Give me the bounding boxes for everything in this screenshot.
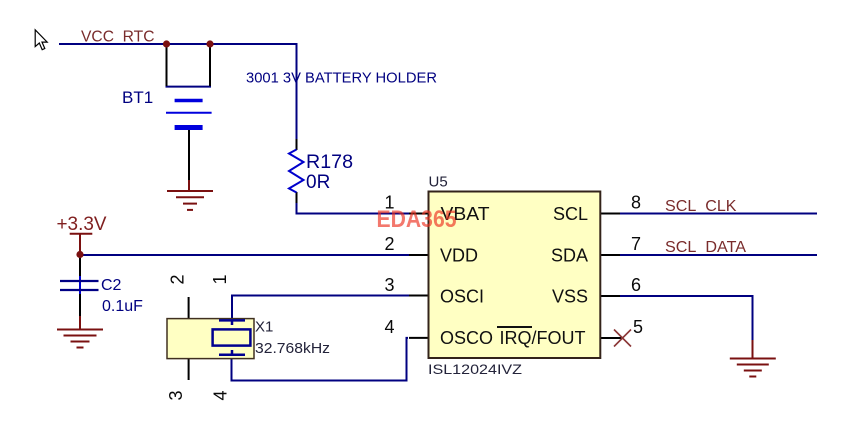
svg-text:5: 5: [633, 317, 643, 337]
svg-text:R178: R178: [306, 152, 353, 173]
svg-text:U5: U5: [429, 174, 448, 191]
svg-text:6: 6: [631, 275, 641, 295]
svg-text:SCL DATA: SCL DATA: [665, 239, 746, 256]
svg-text:8: 8: [631, 193, 641, 213]
svg-text:2: 2: [384, 234, 394, 254]
svg-text:4: 4: [384, 317, 394, 337]
svg-text:+3.3V: +3.3V: [57, 214, 107, 235]
svg-text:1: 1: [210, 274, 230, 284]
svg-text:SDA: SDA: [551, 246, 588, 266]
svg-text:3: 3: [166, 390, 186, 400]
svg-text:C2: C2: [101, 277, 122, 294]
svg-text:32.768kHz: 32.768kHz: [255, 340, 330, 357]
svg-text:SCL CLK: SCL CLK: [665, 198, 737, 215]
svg-text:VDD: VDD: [440, 246, 478, 266]
svg-text:0R: 0R: [306, 172, 330, 193]
svg-text:3001 3V BATTERY HOLDER: 3001 3V BATTERY HOLDER: [246, 70, 437, 87]
svg-text:0.1uF: 0.1uF: [102, 298, 143, 315]
svg-text:EDA365: EDA365: [377, 206, 457, 233]
svg-text:X1: X1: [255, 319, 273, 336]
svg-text:VCC RTC: VCC RTC: [81, 29, 155, 46]
svg-text:ISL12024IVZ: ISL12024IVZ: [428, 361, 523, 377]
svg-text:4: 4: [211, 390, 231, 400]
svg-text:OSCO: OSCO: [440, 328, 493, 348]
svg-text:OSCI: OSCI: [440, 287, 484, 307]
svg-text:IRQ/FOUT: IRQ/FOUT: [500, 328, 586, 348]
svg-text:2: 2: [168, 274, 188, 284]
svg-text:7: 7: [631, 234, 641, 254]
svg-text:3: 3: [384, 275, 394, 295]
svg-text:BT1: BT1: [122, 88, 153, 107]
svg-text:SCL: SCL: [553, 204, 588, 224]
svg-text:VSS: VSS: [552, 287, 588, 307]
